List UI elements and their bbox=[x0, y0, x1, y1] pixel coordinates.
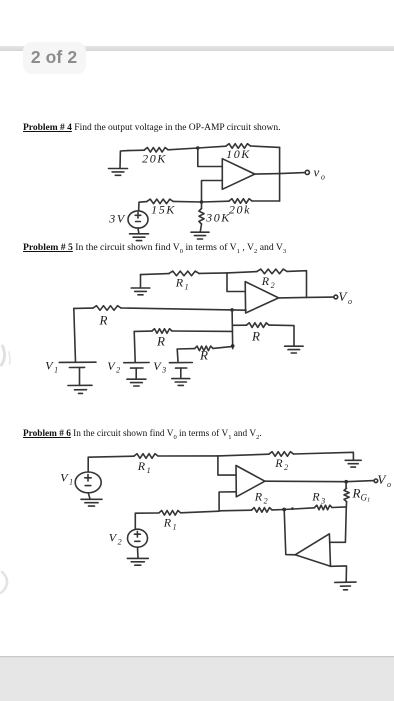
wire: node X down to inverting input of U4 bbox=[331, 507, 347, 542]
resistor 15K bbox=[147, 199, 176, 216]
svg-text:R1: R1 bbox=[175, 276, 191, 292]
wire: R1 to node G bbox=[181, 511, 220, 513]
battery source V1 (problem 5) bbox=[45, 359, 96, 375]
svg-text:vo: vo bbox=[314, 165, 327, 182]
heading problem 5 bbox=[23, 242, 286, 255]
ground G9 (top right, problem 6) bbox=[345, 460, 361, 467]
svg-text:3V: 3V bbox=[108, 212, 126, 226]
wire: rail to resistor R (V1 branch) bbox=[74, 307, 93, 309]
resistor R (ground branch) bbox=[247, 323, 270, 344]
svg-text:R: R bbox=[199, 348, 208, 363]
ground G11 (below V2, problem 6) bbox=[127, 558, 148, 565]
resistor R (V2 branch) bbox=[152, 329, 172, 349]
resistor R3 (problem 6) bbox=[311, 490, 332, 510]
node E (bus bottom junction) bbox=[231, 344, 235, 348]
wire: R2 to output (feedback) bbox=[287, 271, 307, 298]
resistor R1 (problem 6 top) bbox=[134, 454, 158, 475]
wire: U4 output (apex) to node H bbox=[284, 510, 295, 555]
svg-text:V1: V1 bbox=[60, 471, 75, 487]
ground G8 (below V3) bbox=[172, 379, 190, 386]
resistor R (V1 branch) bbox=[93, 306, 121, 328]
wire: 15K to node B bbox=[173, 200, 202, 203]
svg-text:15K: 15K bbox=[151, 203, 176, 217]
wire: source V1 up to rail (problem 5) bbox=[74, 308, 76, 361]
svg-text:R: R bbox=[251, 329, 260, 344]
faint scan mark left edge (upper) bbox=[2, 346, 5, 365]
resistor R (V3 branch) bbox=[195, 346, 213, 362]
wire: U4 lower input to ground bbox=[331, 566, 347, 582]
wire: RG to node X bbox=[345, 502, 347, 507]
wire: non-inverting input of U1 to node B bbox=[202, 181, 223, 203]
wire: bus to resistor R (ground branch) bbox=[233, 324, 247, 326]
bottom separator line bbox=[0, 656, 394, 657]
wire: source V2 up to rail (problem 5) bbox=[134, 331, 135, 362]
wire: 20k to feedback right vertical bbox=[252, 200, 280, 202]
voltage source V2 (problem 6) bbox=[109, 529, 148, 547]
node A (inverting input junction) bbox=[196, 146, 200, 150]
wire: 3V source to resistor 15K bbox=[139, 202, 147, 211]
wire: ground stem to resistor R1 bbox=[141, 274, 170, 275]
ground G12 (bottom right, problem 6) bbox=[335, 582, 356, 590]
ground G3 (below 3V source) bbox=[130, 234, 149, 241]
wire: V2 source to ground (problem 6) bbox=[137, 547, 140, 558]
terminal vo (problem 4) bbox=[305, 170, 309, 174]
svg-text:R: R bbox=[156, 334, 165, 349]
svg-text:R1: R1 bbox=[137, 459, 153, 475]
op-amp U2 bbox=[245, 282, 278, 313]
voltage source V 3V (problem 4) bbox=[108, 211, 148, 228]
wire: R to bus (V2 branch) bbox=[172, 330, 233, 332]
node: RG top junction bbox=[344, 480, 348, 484]
resistor 10K bbox=[226, 144, 251, 161]
svg-text:V2: V2 bbox=[109, 531, 124, 547]
ground G1 (top-left, problem 4) bbox=[109, 151, 129, 176]
resistor 20K bbox=[142, 148, 168, 166]
wire: source V3 up to rail (problem 5) bbox=[176, 349, 179, 361]
wire: R1 to node F bbox=[158, 455, 218, 457]
wire: R to node D (non-inverting bus) bbox=[121, 308, 232, 310]
wire: U2 output to terminal Vo bbox=[279, 296, 334, 299]
svg-text:20K: 20K bbox=[142, 152, 167, 166]
ground G7 (below V2) bbox=[127, 379, 146, 386]
svg-text:20k: 20k bbox=[229, 203, 251, 217]
svg-text:R2: R2 bbox=[254, 490, 270, 506]
svg-text:V2: V2 bbox=[107, 359, 122, 375]
wire: node A to inverting input of U1 bbox=[198, 148, 223, 167]
wire: non-inverting input of U3 down to node G bbox=[219, 492, 236, 511]
ground G5 (right, problem 5) bbox=[285, 346, 304, 353]
wire: U1 output to terminal vo bbox=[255, 173, 305, 175]
svg-text:R: R bbox=[99, 313, 108, 328]
wire: node F to resistor R2 (top) bbox=[218, 454, 269, 456]
battery source V2 (problem 5) bbox=[107, 359, 149, 375]
svg-text:R2: R2 bbox=[261, 274, 277, 290]
terminal Vo (problem 6) bbox=[374, 479, 378, 483]
wire: node B to resistor 20k bbox=[202, 200, 230, 203]
wire: bus vertical (problem 5) bbox=[231, 310, 234, 349]
resistor R1 (problem 5) bbox=[169, 271, 199, 291]
wire: 10K to feedback corner bbox=[251, 146, 280, 147]
heading problem 6 bbox=[23, 429, 262, 441]
wire: rail to resistor R (V2 branch) bbox=[134, 330, 152, 332]
ground G4 (top, problem 5) bbox=[131, 275, 150, 295]
wire: output junction down to resistor RG bbox=[345, 482, 347, 489]
resistor R2 (problem 5) bbox=[257, 269, 287, 290]
svg-text:R3: R3 bbox=[311, 490, 327, 506]
svg-text:Vo: Vo bbox=[338, 289, 353, 306]
page indicator pill "2 of 2" bbox=[23, 42, 86, 75]
ground G2 (below 30K, problem 4) bbox=[191, 232, 209, 239]
wire: node G to resistor R2 (lower) bbox=[219, 509, 252, 512]
wire: U3 output to terminal Vo (problem 6) bbox=[265, 481, 374, 482]
wire: node C to inverting input of U2 bbox=[227, 273, 245, 292]
op-amp U4 (mirrored) bbox=[295, 534, 330, 567]
resistor R1 (problem 6 lower) bbox=[159, 511, 181, 532]
wire: rail to resistor R (V3 branch) bbox=[177, 348, 195, 350]
wire: 3V source to ground bbox=[137, 228, 140, 233]
wire: R3 to node X bbox=[332, 506, 346, 509]
svg-text:V3: V3 bbox=[153, 359, 168, 375]
wire: 20K to node A bbox=[168, 148, 198, 150]
node H2 (small junction dot) bbox=[291, 507, 294, 510]
svg-text:10K: 10K bbox=[226, 147, 251, 161]
wire: V3 battery to ground bbox=[180, 368, 182, 378]
op-amp U3 bbox=[236, 466, 265, 497]
ground G6 (below V1) bbox=[68, 385, 92, 393]
wire: left rail to resistor 20K bbox=[128, 149, 145, 151]
wire: R1 to node C bbox=[199, 272, 227, 275]
wire: V1 source to ground (problem 6) bbox=[88, 493, 90, 499]
svg-text:30K: 30K bbox=[205, 211, 231, 225]
wire: R to ground (problem 5 right) bbox=[269, 325, 294, 346]
node H (feedback junction) bbox=[282, 508, 286, 512]
resistor 20k (lower) bbox=[229, 199, 252, 217]
wire: R to bus (V3 branch) bbox=[213, 346, 233, 348]
wire: R2 to top-right ground bbox=[294, 452, 354, 460]
voltage source V1 (problem 6) bbox=[60, 471, 101, 493]
wire: node C to resistor R2 (problem 5) bbox=[227, 272, 257, 273]
battery source V3 (problem 5) bbox=[153, 359, 192, 375]
wire: R2 to node H bbox=[272, 509, 284, 511]
svg-text:R2: R2 bbox=[274, 456, 290, 472]
node D (bus top junction) bbox=[230, 308, 234, 312]
faint scan mark left edge (lower) bbox=[0, 572, 7, 593]
wire: node A to resistor 10K bbox=[198, 146, 226, 148]
wire: node H to resistor R3 bbox=[284, 508, 314, 510]
ground G10 (below V1, problem 6) bbox=[81, 499, 102, 506]
wire: V1 battery to ground bbox=[79, 368, 81, 386]
resistor 30K bbox=[199, 202, 231, 225]
resistor RG bbox=[344, 486, 370, 504]
node B (non-inverting junction) bbox=[200, 200, 204, 204]
bottom gray band bbox=[0, 657, 394, 701]
wire: 30K to ground bbox=[200, 224, 201, 232]
wire: node F to inverting input of U3 bbox=[218, 456, 236, 475]
wire: feedback right vertical bbox=[279, 147, 281, 201]
svg-text:Vo: Vo bbox=[377, 472, 392, 489]
resistor R2 (problem 6 lower) bbox=[252, 490, 272, 513]
wire: V2 source up to rail (problem 6) bbox=[135, 513, 159, 529]
svg-text:R1: R1 bbox=[163, 516, 179, 532]
wire: node D to non-inverting input of U2 bbox=[232, 309, 246, 311]
svg-text:V1: V1 bbox=[45, 359, 60, 375]
wire: V1 source up to rail (problem 6) bbox=[88, 456, 134, 472]
heading problem 4 bbox=[23, 123, 281, 133]
svg-text:RG1: RG1 bbox=[352, 486, 371, 504]
resistor R2 (problem 6 top) bbox=[269, 452, 294, 472]
wire: V2 battery to ground bbox=[135, 368, 137, 379]
page header bar line bbox=[0, 46, 394, 51]
terminal Vo (problem 5) bbox=[334, 295, 338, 299]
op-amp U1 bbox=[222, 159, 255, 190]
